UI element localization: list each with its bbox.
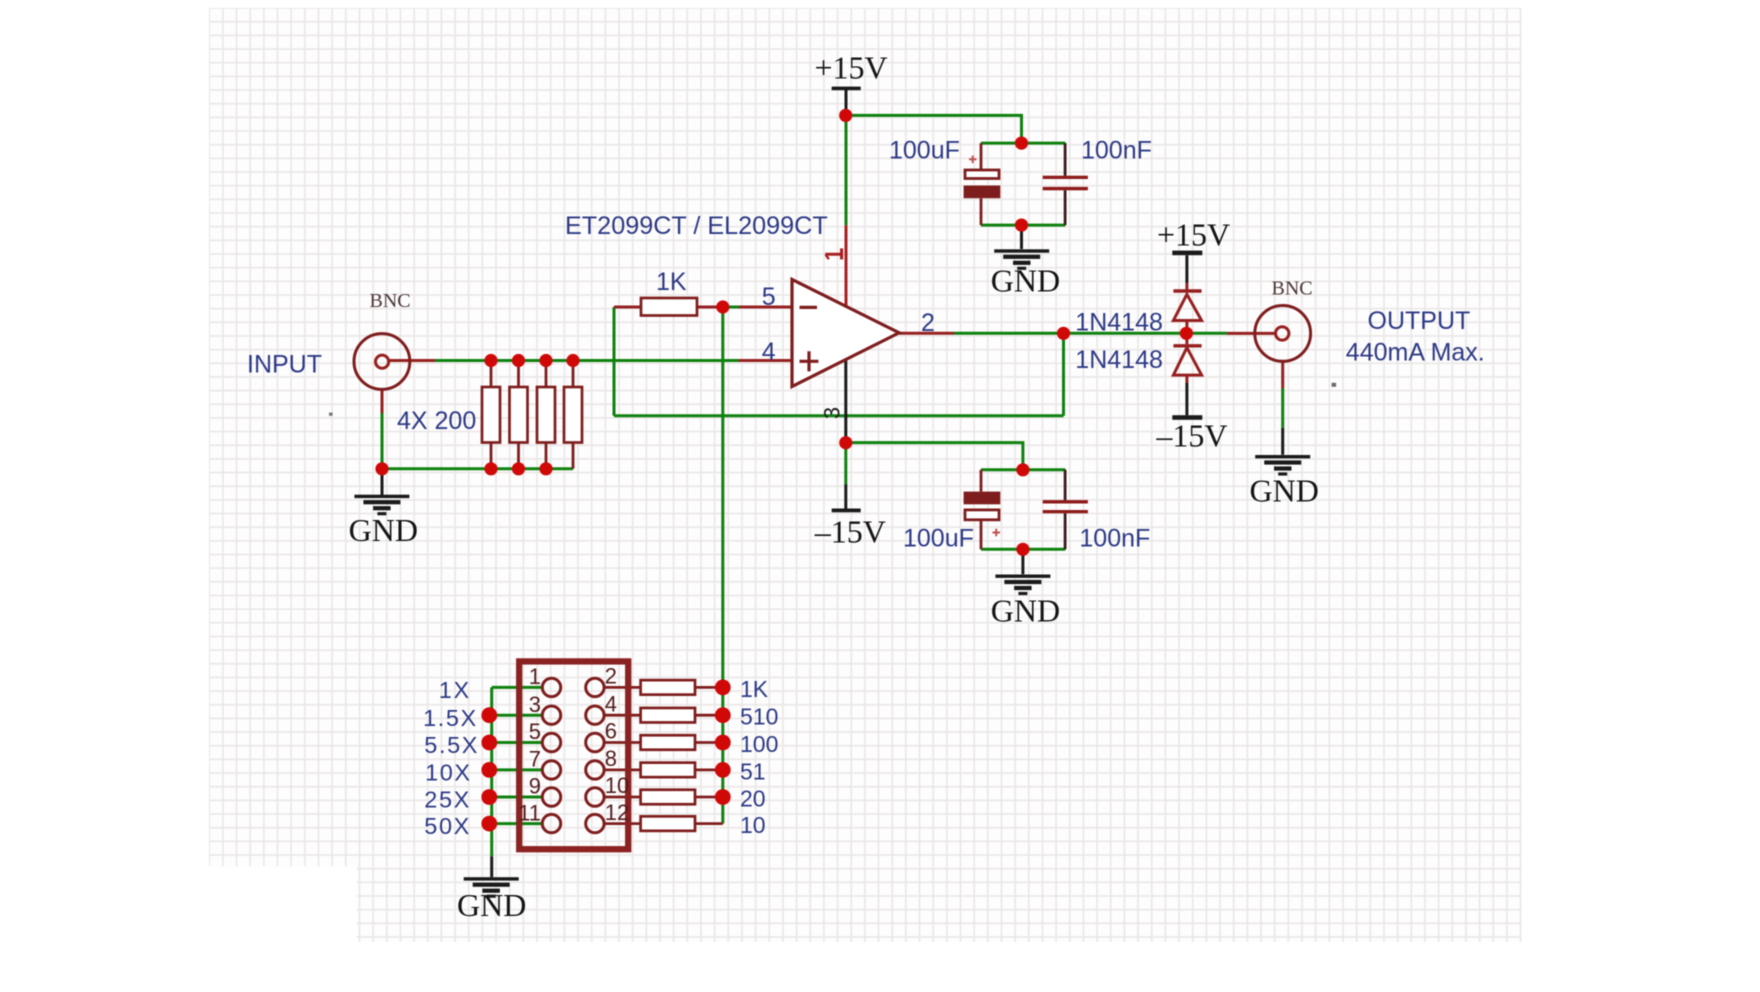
svg-text:GND: GND bbox=[1250, 472, 1319, 508]
svg-text:6: 6 bbox=[605, 719, 617, 744]
svg-text:51: 51 bbox=[740, 758, 766, 784]
svg-text:ET2099CT / EL2099CT: ET2099CT / EL2099CT bbox=[565, 212, 828, 240]
svg-text:GND: GND bbox=[349, 512, 418, 548]
svg-text:INPUT: INPUT bbox=[247, 351, 322, 379]
svg-text:10: 10 bbox=[605, 773, 629, 798]
svg-text:2: 2 bbox=[605, 664, 617, 689]
svg-text:9: 9 bbox=[529, 774, 541, 799]
svg-text:5: 5 bbox=[529, 719, 541, 744]
svg-text:25X: 25X bbox=[424, 787, 471, 813]
svg-text:11: 11 bbox=[518, 800, 541, 825]
svg-text:440mA Max.: 440mA Max. bbox=[1346, 338, 1485, 366]
svg-text:GND: GND bbox=[991, 262, 1060, 298]
svg-text:4: 4 bbox=[762, 338, 776, 366]
svg-text:7: 7 bbox=[529, 747, 541, 772]
svg-text:100uF: 100uF bbox=[903, 525, 974, 553]
svg-text:GND: GND bbox=[457, 887, 526, 923]
svg-text:1X: 1X bbox=[439, 677, 471, 703]
svg-text:5: 5 bbox=[762, 283, 776, 311]
svg-text:1: 1 bbox=[529, 664, 541, 689]
svg-text:100nF: 100nF bbox=[1079, 525, 1150, 553]
svg-text:1N4148: 1N4148 bbox=[1075, 346, 1163, 374]
svg-text:1N4148: 1N4148 bbox=[1075, 309, 1163, 337]
svg-text:+15V: +15V bbox=[1157, 216, 1230, 252]
svg-text:–15V: –15V bbox=[1155, 417, 1227, 453]
svg-text:100: 100 bbox=[740, 731, 778, 757]
svg-text:1K: 1K bbox=[656, 268, 687, 296]
svg-text:4: 4 bbox=[605, 691, 617, 716]
svg-text:5.5X: 5.5X bbox=[424, 732, 479, 758]
svg-text:+15V: +15V bbox=[815, 50, 888, 86]
svg-text:12: 12 bbox=[605, 800, 629, 825]
svg-text:GND: GND bbox=[991, 593, 1060, 629]
svg-text:10: 10 bbox=[740, 812, 766, 838]
svg-text:2: 2 bbox=[921, 309, 935, 337]
svg-text:20: 20 bbox=[740, 786, 766, 812]
svg-text:4X 200: 4X 200 bbox=[397, 407, 476, 435]
svg-text:BNC: BNC bbox=[1272, 278, 1313, 300]
svg-text:OUTPUT: OUTPUT bbox=[1368, 307, 1471, 335]
svg-text:10X: 10X bbox=[425, 760, 472, 786]
svg-text:3: 3 bbox=[820, 407, 845, 419]
svg-text:3: 3 bbox=[529, 692, 541, 717]
svg-text:50X: 50X bbox=[424, 813, 471, 839]
svg-text:1.5X: 1.5X bbox=[423, 705, 478, 731]
svg-text:100uF: 100uF bbox=[889, 137, 960, 165]
svg-text:1K: 1K bbox=[740, 676, 769, 702]
svg-text:510: 510 bbox=[740, 704, 778, 730]
svg-text:–15V: –15V bbox=[814, 513, 886, 549]
svg-text:BNC: BNC bbox=[370, 290, 411, 312]
svg-text:100nF: 100nF bbox=[1081, 137, 1152, 165]
svg-text:8: 8 bbox=[605, 746, 617, 771]
